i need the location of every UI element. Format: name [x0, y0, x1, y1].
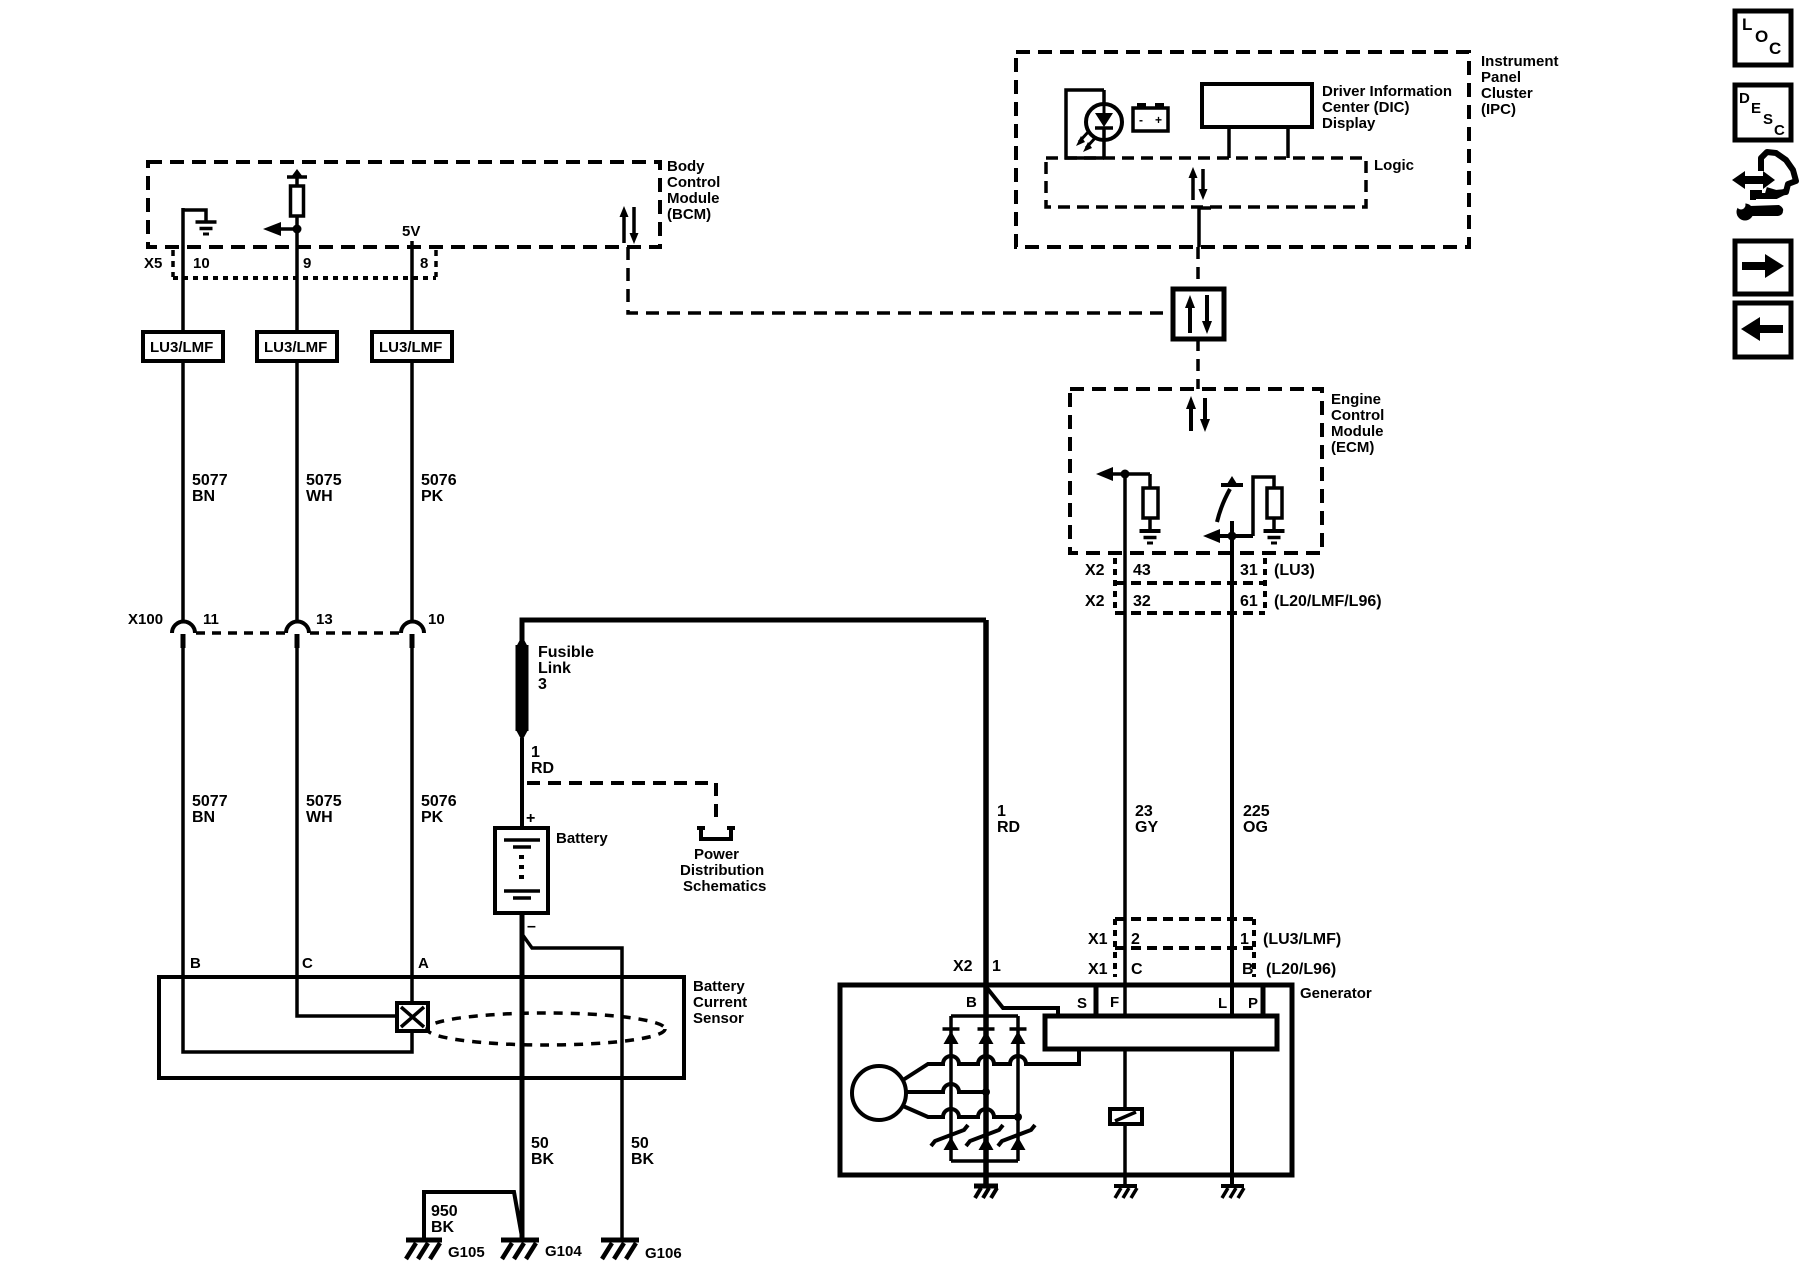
svg-text:G105: G105	[448, 1244, 485, 1261]
generator terminal pin labels B S F L P	[966, 994, 1258, 1012]
svg-text:S: S	[1077, 995, 1087, 1012]
wire logic to IPC edge	[1199, 208, 1211, 247]
wire B+ bus (1 RD feed, thick horizontal)	[522, 620, 986, 642]
zener diode negative phase 2	[966, 1125, 1003, 1150]
svg-text:Distribution: Distribution	[680, 862, 764, 879]
stub P terminal	[1261, 985, 1266, 1016]
svg-text:Control: Control	[667, 174, 720, 191]
svg-text:Center (DIC): Center (DIC)	[1322, 99, 1410, 116]
resistor (ECM right internal)	[1253, 477, 1282, 536]
serial data arrows (logic)	[1189, 167, 1208, 200]
svg-text:LU3/LMF: LU3/LMF	[379, 339, 442, 356]
serial data link node box	[1173, 289, 1224, 339]
svg-text:L: L	[1218, 995, 1227, 1012]
nav icon LOC button	[1735, 11, 1791, 65]
connector X2 row 1 (pins 43, 31 - LU3)	[1085, 558, 1315, 613]
ground (ECM left internal)	[1140, 531, 1161, 543]
wire 5075 WH lower segment	[297, 648, 342, 977]
rectifier top bus	[951, 1014, 1018, 1018]
splice pack LU3/LMF (wire 5075)	[257, 332, 337, 361]
connector X5 (pins 10, 9, 8)	[144, 250, 436, 278]
nav icon forward arrow button	[1735, 241, 1791, 294]
svg-text:Power: Power	[694, 846, 739, 863]
svg-text:X2: X2	[1085, 562, 1105, 579]
ground G106	[601, 1240, 682, 1262]
svg-text:10: 10	[428, 611, 445, 628]
svg-text:23: 23	[1135, 803, 1153, 820]
svg-text:A: A	[418, 955, 429, 972]
ground G105	[406, 1240, 485, 1261]
svg-text:-: -	[1139, 113, 1143, 127]
svg-text:WH: WH	[306, 809, 333, 826]
svg-text:X1: X1	[1088, 961, 1108, 978]
wire BCM pin 9	[295, 216, 299, 332]
battery icon (IPC telltale)	[1133, 103, 1168, 131]
hall element (X box) of current sensor	[397, 1003, 428, 1031]
svg-text:1: 1	[1240, 931, 1249, 948]
svg-text:(L20/L96): (L20/L96)	[1266, 961, 1336, 978]
DIC display (Driver Information Center)	[1202, 83, 1452, 158]
ground (generator B lead)	[974, 1186, 998, 1198]
svg-text:OG: OG	[1243, 819, 1268, 836]
svg-text:E: E	[1751, 100, 1761, 117]
connector X1 row 1 (pins 2, 1 - LU3/LMF)	[1088, 919, 1341, 977]
wire 23 GY (ECM pin 43 to generator F)	[1125, 474, 1158, 986]
svg-text:5V: 5V	[402, 223, 420, 240]
svg-text:B: B	[1242, 961, 1254, 978]
module box IPC (Instrument Panel Cluster)	[1016, 52, 1559, 247]
svg-text:32: 32	[1133, 593, 1151, 610]
nav icon hotlink (double arrow with wrench)	[1732, 152, 1796, 221]
svg-text:Cluster: Cluster	[1481, 85, 1533, 102]
svg-text:RD: RD	[997, 819, 1020, 836]
svg-text:LU3/LMF: LU3/LMF	[150, 339, 213, 356]
svg-text:(ECM): (ECM)	[1331, 439, 1374, 456]
wire 50 BK branch to G106	[522, 934, 655, 1240]
svg-text:L: L	[1742, 15, 1752, 34]
svg-text:43: 43	[1133, 562, 1151, 579]
diode positive phase 2	[978, 1029, 995, 1044]
svg-text:BK: BK	[631, 1151, 655, 1168]
charge indicator lamp (telltale)	[1066, 90, 1122, 158]
switch (ECM internal, L-terminal driver)	[1217, 476, 1243, 536]
wire BCM pin 10 (x5-10 to LU3 box)	[181, 208, 185, 332]
connector X100 terminal pin 10	[401, 622, 424, 649]
nav icon back arrow button	[1735, 303, 1791, 357]
svg-text:X2: X2	[1085, 593, 1105, 610]
wire serial data link box to ECM (dashed)	[1196, 339, 1200, 389]
wire sensor pin C internal	[297, 977, 396, 1016]
svg-text:X5: X5	[144, 255, 162, 272]
svg-text:Module: Module	[667, 190, 720, 207]
ground (generator L lead)	[1221, 1186, 1244, 1198]
fusible link 3	[516, 636, 595, 741]
svg-text:PK: PK	[421, 488, 444, 505]
wire 950 BK branch to G105	[424, 1192, 522, 1240]
svg-text:S: S	[1763, 111, 1773, 128]
rectifier leg 3	[1016, 1016, 1020, 1161]
module box ECM (Engine Control Module)	[1070, 389, 1384, 553]
svg-text:3: 3	[538, 676, 547, 693]
svg-text:PK: PK	[421, 809, 444, 826]
sensing loop (dashed ellipse)	[427, 1013, 665, 1045]
svg-text:C: C	[302, 955, 313, 972]
svg-text:5076: 5076	[421, 472, 457, 489]
diode positive phase 1	[943, 1029, 960, 1044]
svg-text:Schematics: Schematics	[683, 878, 766, 895]
connector X1 row 2 (pins C, B - L20/L96)	[1088, 961, 1336, 978]
resistor (ECM left internal)	[1143, 474, 1158, 531]
wire 5077 BN lower segment	[183, 648, 228, 977]
wire 1 RD label (generator B feed)	[997, 803, 1020, 836]
logic block (IPC)	[1046, 157, 1414, 207]
connector X100 terminal pin 13	[286, 622, 309, 649]
connector X2 row 2 (pins 32, 61 - L20/LMF/L96)	[1085, 583, 1382, 613]
off-page reference bracket (power distribution)	[701, 828, 731, 839]
wire sensor pin B internal loop	[183, 977, 412, 1052]
wire dashed reference to power distribution	[527, 783, 716, 821]
svg-text:LU3/LMF: LU3/LMF	[264, 339, 327, 356]
svg-text:RD: RD	[531, 760, 554, 777]
svg-text:F: F	[1110, 994, 1119, 1011]
svg-text:Body: Body	[667, 158, 705, 175]
svg-text:BK: BK	[531, 1151, 555, 1168]
connector X100 (pins 11, 13, 10)	[128, 611, 445, 628]
battery	[495, 828, 608, 913]
svg-text:B: B	[190, 955, 201, 972]
svg-text:Link: Link	[538, 660, 571, 677]
svg-text:10: 10	[193, 255, 210, 272]
stub S terminal	[1094, 985, 1099, 1016]
svg-text:G106: G106	[645, 1245, 682, 1262]
svg-text:P: P	[1248, 995, 1258, 1012]
svg-text:50: 50	[531, 1135, 549, 1152]
arrow left (ECM lamp signal) with junction node	[1203, 529, 1253, 543]
svg-text:X2: X2	[953, 958, 973, 975]
wire 5076 PK upper segment	[412, 361, 457, 622]
svg-text:(L20/LMF/L96): (L20/LMF/L96)	[1274, 593, 1382, 610]
splice pack LU3/LMF (wire 5077)	[143, 332, 223, 361]
wire 5077 BN upper segment	[183, 361, 228, 622]
svg-text:Driver Information: Driver Information	[1322, 83, 1452, 100]
svg-text:C: C	[1131, 961, 1143, 978]
arrow left (BCM signal out) with junction node	[263, 222, 302, 236]
rectifier bottom bus	[951, 1159, 1018, 1163]
svg-text:50: 50	[631, 1135, 649, 1152]
svg-text:D: D	[1739, 90, 1750, 107]
wire serial data IPC to link box (dashed)	[1196, 247, 1200, 289]
field fuse element (generator F path)	[1110, 1109, 1142, 1124]
svg-text:1: 1	[531, 744, 540, 761]
serial data arrows (ECM)	[1186, 396, 1210, 432]
svg-text:Battery: Battery	[693, 978, 745, 995]
svg-text:5077: 5077	[192, 793, 228, 810]
svg-text:–: –	[527, 918, 536, 935]
svg-text:Generator: Generator	[1300, 985, 1372, 1002]
svg-text:Display: Display	[1322, 115, 1376, 132]
svg-text:31: 31	[1240, 562, 1258, 579]
rectifier leg 1	[949, 1016, 953, 1161]
stator phase lead 2	[906, 1084, 986, 1092]
junction node phase 3	[1014, 1113, 1022, 1121]
svg-text:9: 9	[303, 255, 311, 272]
svg-text:61: 61	[1240, 593, 1258, 610]
wire BCM pin 8	[410, 241, 414, 332]
svg-text:Control: Control	[1331, 407, 1384, 424]
wire F terminal upper	[1123, 985, 1127, 1109]
wire sensor pin A internal	[410, 977, 414, 1003]
svg-text:2: 2	[1131, 931, 1140, 948]
svg-text:B: B	[966, 994, 977, 1011]
svg-text:5076: 5076	[421, 793, 457, 810]
generator box	[840, 985, 1372, 1175]
svg-text:(LU3): (LU3)	[1274, 562, 1315, 579]
connector X100 terminal pin 11	[172, 622, 195, 649]
svg-text:Module: Module	[1331, 423, 1384, 440]
svg-text:1: 1	[992, 958, 1001, 975]
svg-text:C: C	[1769, 39, 1781, 58]
stator phase lead 3	[903, 1106, 1018, 1117]
splice pack LU3/LMF (wire 5076)	[372, 332, 452, 361]
svg-text:Battery: Battery	[556, 830, 608, 847]
arrow left (ECM field control out) with junction node	[1096, 467, 1150, 481]
svg-text:C: C	[1774, 122, 1785, 139]
wire F terminal lower	[1123, 1124, 1127, 1186]
stator phase lead 1 (sense to regulator)	[903, 1049, 1079, 1080]
ground (generator F lead)	[1114, 1186, 1137, 1198]
svg-text:Sensor: Sensor	[693, 1010, 744, 1027]
wire battery negative (50 BK main, thick)	[522, 913, 555, 1240]
resistor (BCM internal pull-up)	[287, 169, 307, 216]
battery current sensor box	[159, 977, 747, 1078]
svg-text:(LU3/LMF): (LU3/LMF)	[1263, 931, 1341, 948]
serial data arrows (BCM)	[620, 206, 639, 244]
stator winding (rotor circle)	[852, 1066, 906, 1120]
svg-text:Engine: Engine	[1331, 391, 1381, 408]
svg-text:Logic: Logic	[1374, 157, 1414, 174]
ground (ECM right internal)	[1264, 531, 1285, 543]
wire 225 OG (ECM pin 31 to generator L)	[1232, 536, 1270, 986]
svg-text:+: +	[1155, 113, 1162, 127]
svg-text:11: 11	[203, 611, 219, 628]
diode positive phase 3	[1010, 1029, 1027, 1044]
svg-text:Panel: Panel	[1481, 69, 1521, 86]
wire 1 RD vertical (B terminal feed, thick)	[983, 620, 989, 1186]
svg-text:5075: 5075	[306, 793, 342, 810]
wire 5075 WH upper segment	[297, 361, 342, 622]
voltage regulator (generator internal)	[1045, 1016, 1277, 1049]
zener diode negative phase 3	[998, 1125, 1035, 1150]
svg-text:Fusible: Fusible	[538, 644, 594, 661]
svg-text:O: O	[1755, 27, 1768, 46]
wire 5076 PK lower segment	[412, 648, 457, 977]
svg-text:5077: 5077	[192, 472, 228, 489]
svg-text:WH: WH	[306, 488, 333, 505]
svg-text:(BCM): (BCM)	[667, 206, 711, 223]
svg-text:BN: BN	[192, 488, 215, 505]
zener diode negative phase 1	[931, 1125, 968, 1150]
svg-text:BK: BK	[431, 1219, 455, 1236]
svg-text:BN: BN	[192, 809, 215, 826]
svg-text:13: 13	[316, 611, 333, 628]
svg-text:1: 1	[997, 803, 1006, 820]
svg-text:8: 8	[420, 255, 428, 272]
svg-text:X100: X100	[128, 611, 163, 628]
wire serial data BCM to splice (dashed)	[628, 247, 1173, 313]
svg-text:Instrument: Instrument	[1481, 53, 1559, 70]
nav icon DESC button	[1735, 85, 1791, 140]
svg-text:GY: GY	[1135, 819, 1158, 836]
svg-text:5075: 5075	[306, 472, 342, 489]
wire B terminal to regulator	[987, 988, 1058, 1016]
svg-text:+: +	[526, 810, 535, 827]
ground (BCM internal)	[183, 210, 217, 234]
wire L terminal inner	[1230, 985, 1234, 1186]
svg-text:225: 225	[1243, 803, 1270, 820]
svg-text:G104: G104	[545, 1243, 582, 1260]
svg-text:950: 950	[431, 1203, 458, 1220]
svg-text:X1: X1	[1088, 931, 1108, 948]
junction node phase 2	[982, 1088, 990, 1096]
module box BCM (Body Control Module)	[148, 158, 720, 247]
ground G104	[501, 1240, 582, 1260]
connector X2 pin 1 (generator B lead)	[953, 958, 1001, 975]
wire 1 RD (link to battery)	[522, 738, 554, 828]
svg-text:Current: Current	[693, 994, 747, 1011]
connector X100 dashed gang line	[196, 631, 400, 635]
svg-text:(IPC): (IPC)	[1481, 101, 1516, 118]
